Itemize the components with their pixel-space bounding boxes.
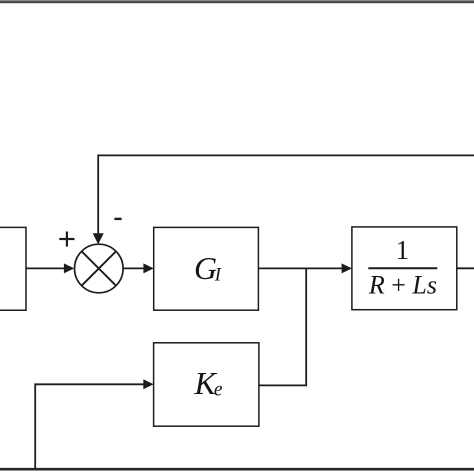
bottom wire (full width) <box>0 468 474 471</box>
plus label <box>59 232 74 247</box>
figure top border <box>0 0 474 3</box>
arrowhead down into summing junction <box>93 233 104 244</box>
block Ke <box>154 343 259 426</box>
wire GI to 1/(R+Ls) block <box>258 267 343 269</box>
wire summing junction to GI block <box>123 267 145 269</box>
branch wire from Ke output up to main wire <box>259 268 306 385</box>
arrowhead into summing junction <box>64 263 74 273</box>
summing junction X-circle <box>75 244 124 293</box>
block 1/(R+Ls) <box>352 227 457 310</box>
svg-text:R + Ls: R + Ls <box>368 270 437 299</box>
feedback wire (from right edge) <box>98 155 474 234</box>
arrowhead into GI block <box>143 263 153 273</box>
block (partial, left edge of figure) <box>0 227 26 310</box>
arrowhead into 1/(R+Ls) block <box>342 263 352 273</box>
block GI <box>154 227 259 310</box>
wire from left block to summing junction <box>26 267 66 269</box>
wire into Ke from bottom-left feedback <box>35 384 145 469</box>
minus label <box>114 218 121 220</box>
svg-text:1: 1 <box>396 235 410 265</box>
arrowhead into Ke <box>143 379 153 389</box>
wire 1/(R+Ls) output to right edge <box>457 267 474 269</box>
